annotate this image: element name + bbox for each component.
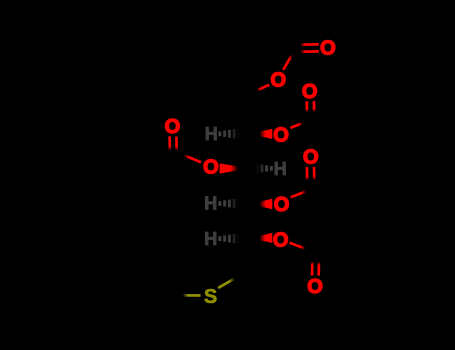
hash wedge C3 to H: [251, 163, 273, 174]
svg-text:O: O: [307, 276, 323, 298]
wedge bond C4 to O (acetate 3): [250, 199, 272, 210]
hash wedge C4 to H: [218, 197, 245, 209]
double bond C=O (acetate 2): [307, 101, 315, 112]
svg-text:H: H: [204, 194, 217, 214]
double bond C=O (acetate 1): [300, 44, 319, 51]
wedge bond C2 to O (acetate 2): [250, 129, 272, 139]
bond C2-Oester red half (acetate 2): [290, 123, 302, 128]
bond S-C6: [218, 279, 234, 288]
hash wedge C2 to H: [218, 128, 245, 140]
svg-text:H: H: [274, 159, 287, 179]
bond carbonyl-Oester (acetate 5): [184, 155, 201, 162]
bond C5-Oester red half (acetate 4): [289, 243, 305, 249]
double bond C=O (acetate 5): [170, 136, 177, 150]
bond C4-Oester red half (acetate 3): [291, 191, 306, 197]
svg-text:O: O: [273, 125, 289, 147]
svg-text:O: O: [203, 157, 219, 179]
svg-text:O: O: [274, 194, 290, 216]
bond Oester-C1 (acetate 1): [257, 85, 269, 91]
hash wedge C5 to H: [218, 232, 245, 244]
svg-text:O: O: [302, 81, 318, 103]
double bond C=O (acetate 3): [307, 167, 314, 180]
svg-text:O: O: [165, 116, 181, 138]
double bond C=O (acetate 4): [312, 261, 319, 275]
svg-text:S: S: [204, 286, 217, 308]
svg-text:O: O: [271, 69, 287, 91]
wedge bond C3 to O (acetate 5): [220, 163, 250, 173]
wedge bond C5 to O (acetate 4): [250, 233, 272, 243]
svg-text:O: O: [303, 147, 319, 169]
svg-text:H: H: [204, 229, 217, 249]
svg-text:O: O: [273, 230, 289, 252]
svg-text:O: O: [320, 38, 336, 60]
svg-text:H: H: [205, 124, 218, 144]
bond C1carbonyl-Oester (acetate 1): [283, 55, 292, 70]
bond S-CH3 (methylthio): [183, 294, 201, 297]
